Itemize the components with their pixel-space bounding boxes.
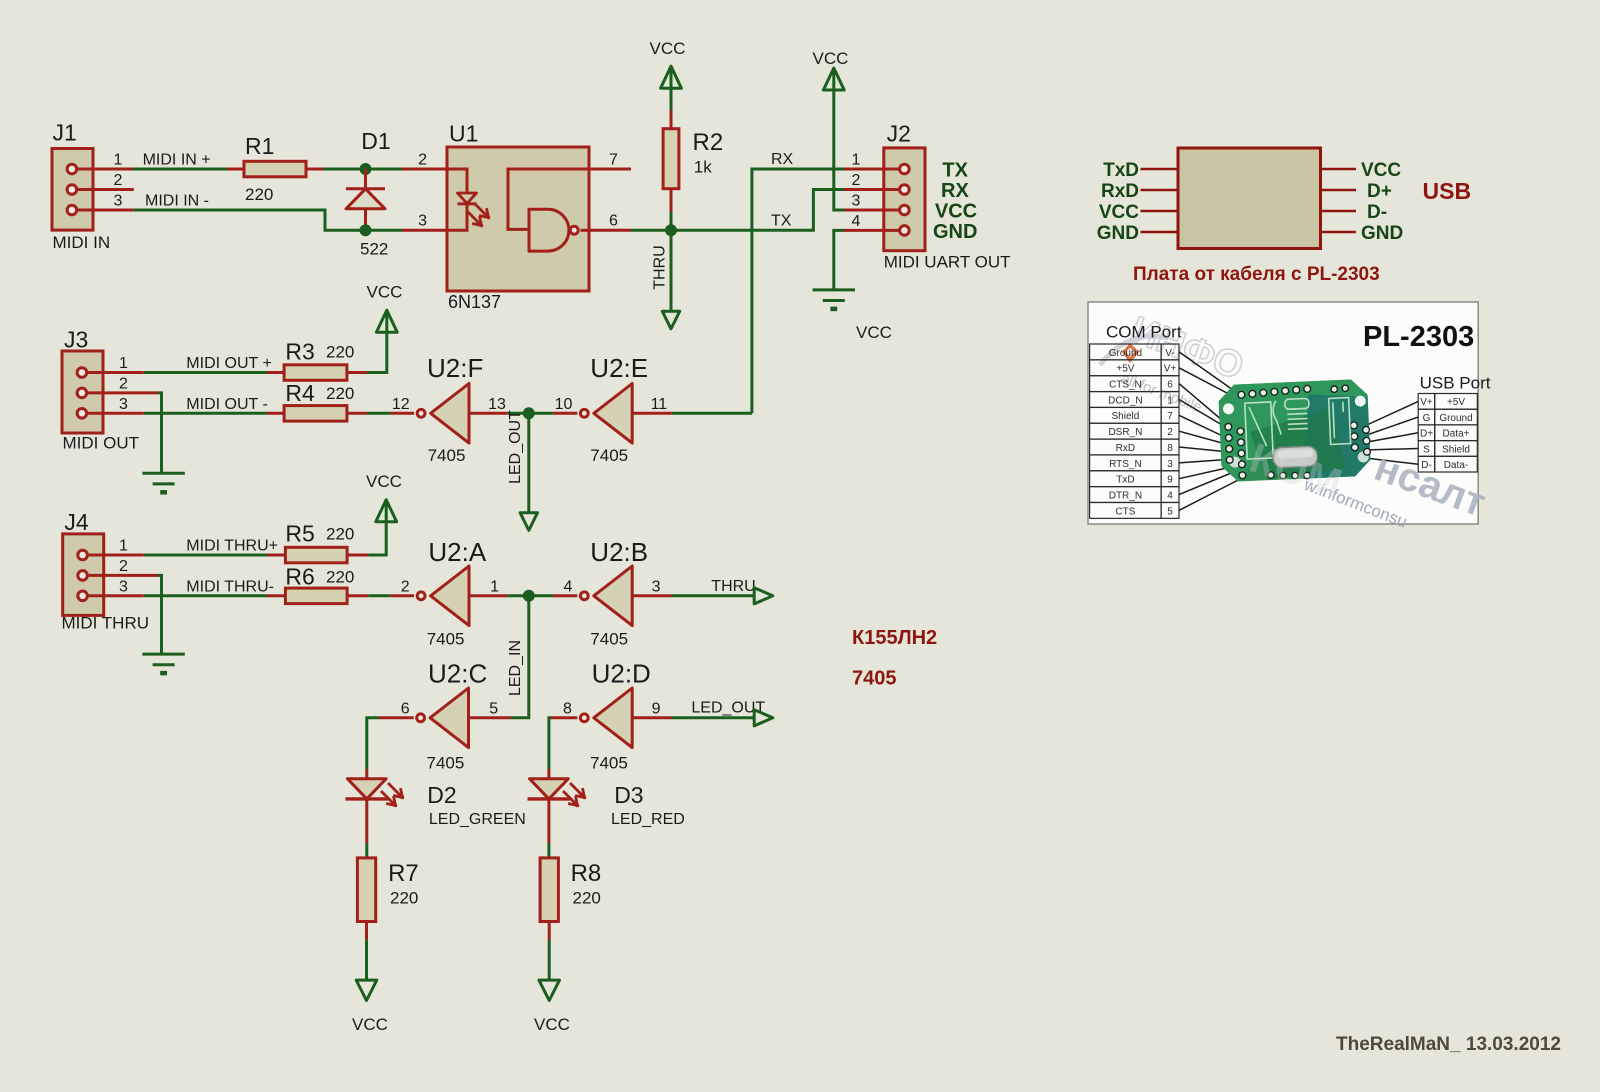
wire MIDI IN + (J1.1 to R1) (133, 152, 227, 170)
LED D3 LED_RED (528, 769, 685, 843)
svg-text:6: 6 (609, 213, 618, 230)
wire R5 to VCC corner (368, 521, 386, 555)
svg-text:MIDI THRU+: MIDI THRU+ (186, 538, 278, 555)
wire J2.4 to ground (834, 230, 844, 290)
J3 pin 3 lead (88, 396, 144, 414)
svg-text:V+: V+ (1420, 397, 1433, 408)
svg-text:7405: 7405 (590, 446, 628, 465)
chip pin RxD (1101, 181, 1178, 202)
svg-text:MIDI IN -: MIDI IN - (145, 193, 209, 210)
COM port pin table (1090, 344, 1162, 360)
svg-text:D2: D2 (427, 782, 456, 808)
U1 pin 7 lead (589, 152, 631, 170)
fan lines PCB to USB table (1356, 401, 1418, 430)
wire MIDI THRU+ (J4.1 to R5) (144, 538, 278, 556)
chip pin TxD (1103, 160, 1178, 181)
svg-text:7: 7 (1167, 411, 1173, 422)
svg-text:7405: 7405 (590, 630, 628, 649)
svg-text:MIDI UART OUT: MIDI UART OUT (884, 253, 1011, 272)
wire U2:E out to RX riser (672, 412, 752, 415)
power VCC terminal above J2 (813, 49, 849, 90)
USB port pin table (1418, 394, 1435, 410)
svg-text:GND: GND (933, 221, 977, 243)
svg-text:9: 9 (1167, 475, 1173, 486)
svg-text:LED_OUT: LED_OUT (507, 410, 524, 484)
svg-text:RxD: RxD (1116, 443, 1135, 454)
svg-text:RTS_N: RTS_N (1109, 459, 1142, 470)
svg-text:2: 2 (418, 152, 427, 169)
svg-text:U2:D: U2:D (592, 659, 651, 689)
svg-text:R5: R5 (285, 521, 314, 547)
svg-text:3: 3 (119, 396, 128, 413)
svg-text:D1: D1 (361, 128, 390, 154)
svg-text:VCC: VCC (813, 49, 849, 68)
J4 pin 2 lead (89, 558, 158, 576)
J1 pin 2 lead (78, 172, 134, 190)
inverter U2:F 7405 (390, 353, 507, 465)
svg-text:2: 2 (1167, 427, 1173, 438)
svg-text:D+: D+ (1420, 429, 1433, 440)
svg-text:8: 8 (563, 700, 572, 717)
inverter U2:C 7405 (379, 659, 511, 773)
svg-text:CTS_N: CTS_N (1109, 380, 1142, 391)
svg-text:1: 1 (852, 152, 861, 169)
svg-text:12: 12 (392, 396, 410, 413)
svg-text:Shield: Shield (1111, 411, 1139, 422)
wire J4.2 to ground (158, 575, 162, 654)
power VCC terminal above R2 (650, 39, 686, 110)
svg-text:10: 10 (555, 396, 573, 413)
svg-text:R3: R3 (285, 339, 314, 365)
svg-text:U2:E: U2:E (590, 353, 648, 383)
node junction D1 anode (360, 163, 372, 175)
svg-text:2: 2 (114, 172, 123, 189)
svg-text:6: 6 (1167, 380, 1173, 391)
svg-text:7405: 7405 (427, 754, 465, 773)
svg-text:TX: TX (942, 159, 968, 181)
svg-text:RX: RX (941, 180, 969, 202)
svg-text:DCD_N: DCD_N (1108, 395, 1142, 406)
svg-text:1: 1 (119, 538, 128, 555)
terminal THRU (down arrow) (652, 230, 680, 328)
svg-text:+5V: +5V (1116, 364, 1134, 375)
wire RX net J2.1 to U2:E output (752, 151, 844, 413)
svg-text:GND: GND (1097, 223, 1139, 244)
svg-text:3: 3 (652, 578, 661, 595)
chip pin GND right (1321, 223, 1404, 244)
power VCC terminal below R7 (down arrow) (352, 980, 388, 1034)
svg-text:1k: 1k (694, 158, 712, 177)
svg-text:7405: 7405 (852, 668, 897, 690)
watermark swoosh (1100, 336, 1168, 365)
wire LED_IN riser (node to U2:C input) (507, 596, 529, 718)
wire MIDI OUT - (J3.3 to R4) (144, 396, 268, 414)
wire R8 to VCC terminal (548, 940, 551, 980)
chip pin VCC right (1321, 160, 1402, 181)
svg-text:220: 220 (245, 185, 273, 204)
svg-text:J4: J4 (64, 509, 89, 535)
svg-text:К155ЛН2: К155ЛН2 (852, 627, 937, 649)
svg-text:220: 220 (326, 568, 354, 587)
wire U2:F out to node (508, 412, 529, 415)
svg-text:LED_IN: LED_IN (507, 640, 524, 696)
svg-text:220: 220 (390, 889, 418, 908)
optocoupler U1 6N137 (447, 120, 589, 312)
ground symbol J2 (813, 290, 892, 342)
svg-text:TheRealMaN_ 13.03.2012: TheRealMaN_ 13.03.2012 (1336, 1034, 1561, 1055)
svg-text:220: 220 (326, 384, 354, 403)
svg-text:U2:B: U2:B (590, 537, 648, 567)
chip pin D- (1321, 202, 1388, 223)
resistor R8 220 (540, 858, 601, 940)
svg-text:6: 6 (401, 700, 410, 717)
svg-text:7: 7 (609, 152, 618, 169)
connector J3 MIDI OUT (62, 327, 139, 453)
svg-text:+5V: +5V (1447, 397, 1465, 408)
power VCC terminal below R8 (down arrow) (534, 980, 570, 1034)
svg-text:RxD: RxD (1101, 181, 1139, 202)
svg-text:CTS: CTS (1115, 506, 1135, 517)
wire J3.2 to ground (158, 393, 162, 473)
wire R1 to node D1 top (323, 168, 402, 171)
svg-text:3: 3 (1167, 459, 1173, 470)
svg-text:R7: R7 (388, 860, 419, 887)
svg-text:MIDI OUT -: MIDI OUT - (186, 396, 267, 413)
node junction D1 bottom (360, 224, 372, 236)
terminal THRU (right arrow) (754, 588, 773, 604)
fan lines COM table to PCB (1179, 352, 1243, 397)
svg-text:3: 3 (418, 213, 427, 230)
J4 pin 3 lead (89, 578, 144, 596)
wire D3 to R8 (547, 843, 550, 858)
J3 pin 1 lead (88, 355, 144, 373)
node junction LED_OUT (523, 407, 535, 419)
connector J2 MIDI UART OUT (884, 121, 1011, 272)
inverter U2:B 7405 (553, 537, 671, 649)
wire R2 bottom to node (670, 212, 673, 230)
resistor R4 220 (267, 380, 367, 421)
crystal (1273, 446, 1318, 468)
resistor R1 220 (227, 133, 323, 204)
svg-text:J1: J1 (53, 120, 77, 146)
svg-text:MIDI THRU-: MIDI THRU- (186, 578, 274, 595)
svg-text:Плата от кабеля с PL-2303: Плата от кабеля с PL-2303 (1133, 264, 1380, 285)
svg-text:5: 5 (489, 700, 498, 717)
svg-text:Shield: Shield (1442, 444, 1470, 455)
wire MIDI OUT + (J3.1 to R3) (144, 355, 272, 373)
svg-text:R6: R6 (285, 564, 314, 590)
J1 pin 1 lead (78, 152, 133, 170)
svg-text:USB: USB (1423, 178, 1472, 204)
wire R4 to U2:F (367, 412, 390, 415)
chip pin GND left (1097, 223, 1178, 244)
svg-text:220: 220 (573, 889, 601, 908)
svg-text:R1: R1 (245, 133, 274, 159)
svg-text:2: 2 (119, 375, 128, 392)
node junction LED_IN (523, 590, 535, 602)
svg-text:6N137: 6N137 (448, 292, 501, 312)
svg-text:7405: 7405 (428, 446, 466, 465)
svg-text:VCC: VCC (935, 200, 977, 222)
svg-text:7405: 7405 (427, 630, 465, 649)
svg-text:RX: RX (771, 151, 794, 168)
terminal LED_OUT (down arrow) (507, 410, 538, 531)
svg-text:13: 13 (488, 396, 506, 413)
svg-text:1: 1 (490, 578, 499, 595)
svg-text:4: 4 (1167, 490, 1173, 501)
svg-text:V-: V- (1165, 348, 1174, 359)
ground symbol J3 (142, 473, 184, 492)
svg-text:U2:C: U2:C (428, 659, 487, 689)
U1 pin 2 lead (402, 152, 447, 170)
svg-text:R4: R4 (285, 380, 315, 406)
terminal LED_OUT (right arrow) (754, 710, 773, 726)
LED D2 LED_GREEN (345, 769, 525, 843)
J2 pin 1 lead (844, 152, 899, 170)
svg-text:2: 2 (852, 172, 861, 189)
svg-text:LED_RED: LED_RED (611, 811, 685, 828)
svg-text:VCC: VCC (352, 1015, 388, 1034)
wire D2 to R7 (365, 843, 368, 858)
wire U2:A out to node (508, 594, 529, 597)
svg-text:PL-2303: PL-2303 (1363, 321, 1474, 353)
svg-text:4: 4 (852, 213, 861, 230)
chip pin VCC left (1099, 202, 1178, 223)
U1 pin 3 lead (402, 213, 447, 231)
svg-text:J3: J3 (64, 327, 88, 353)
svg-text:MIDI OUT: MIDI OUT (63, 434, 140, 453)
ground symbol J4 (142, 654, 184, 673)
svg-text:GND: GND (1361, 223, 1403, 244)
J2 pin 3 lead (844, 193, 899, 211)
svg-text:220: 220 (326, 343, 354, 362)
svg-text:DSR_N: DSR_N (1108, 427, 1142, 438)
svg-text:1: 1 (119, 355, 128, 372)
resistor R7 220 (357, 858, 418, 940)
wire MIDI IN - (J1.3 to D1/U1) (134, 193, 402, 231)
svg-text:LED_GREEN: LED_GREEN (429, 811, 526, 828)
PL-2303 cable board symbol (chip) (1178, 148, 1321, 249)
svg-text:VCC: VCC (1099, 202, 1139, 223)
svg-text:V+: V+ (1164, 364, 1177, 375)
wire U2:D out to LED_OUT terminal (672, 700, 766, 718)
svg-text:Data+: Data+ (1443, 429, 1470, 440)
wire MIDI THRU- (J4.3 to R6) (144, 578, 274, 596)
svg-text:1: 1 (1167, 395, 1173, 406)
svg-text:VCC: VCC (367, 283, 403, 302)
svg-text:S: S (1423, 444, 1430, 455)
svg-text:2: 2 (401, 578, 410, 595)
J3 pin 2 lead (88, 375, 158, 393)
svg-text:THRU: THRU (711, 578, 755, 595)
svg-text:3: 3 (119, 578, 128, 595)
J1 pin 3 lead (78, 193, 134, 211)
J4 pin 1 lead (89, 538, 144, 556)
svg-text:MIDI OUT +: MIDI OUT + (186, 355, 271, 372)
svg-text:VCC: VCC (1361, 160, 1401, 181)
wire R3 to VCC corner (367, 332, 386, 373)
wire node to U2:E (529, 412, 553, 415)
diode D1 522 (346, 128, 391, 259)
wire node to U2:B (529, 594, 553, 597)
svg-text:220: 220 (326, 525, 354, 544)
svg-text:VCC: VCC (534, 1015, 570, 1034)
svg-text:MIDI THRU: MIDI THRU (62, 614, 150, 633)
svg-text:TxD: TxD (1103, 160, 1139, 181)
svg-text:U2:F: U2:F (427, 353, 483, 383)
svg-text:R2: R2 (693, 129, 724, 156)
svg-text:VCC: VCC (366, 472, 402, 491)
svg-text:Ground: Ground (1439, 413, 1472, 424)
svg-text:D-: D- (1367, 202, 1387, 223)
wire R7 to VCC terminal (365, 940, 368, 980)
wire U1.6 to node TX (631, 229, 671, 232)
chip pin D+ (1321, 181, 1392, 202)
connector J4 MIDI THRU (62, 509, 150, 633)
svg-text:7405: 7405 (590, 754, 628, 773)
inverter U2:D 7405 (551, 659, 672, 773)
svg-text:8: 8 (1167, 443, 1173, 454)
svg-text:D+: D+ (1367, 181, 1392, 202)
wire U2:B out to THRU terminal (672, 578, 756, 596)
J2 pin 2 lead (844, 172, 899, 190)
watermark logo (1122, 343, 1139, 363)
resistor R6 220 (267, 564, 368, 604)
PCB photo (1218, 379, 1371, 483)
svg-text:U2:A: U2:A (428, 537, 486, 567)
resistor R3 220 (267, 339, 367, 381)
wire R6 to U2:A (368, 594, 390, 597)
svg-text:3: 3 (114, 193, 123, 210)
svg-text:11: 11 (651, 396, 668, 413)
svg-text:DTR_N: DTR_N (1109, 490, 1142, 501)
power VCC terminal above R5 (366, 472, 402, 522)
resistor R5 220 (267, 521, 368, 563)
svg-text:4: 4 (563, 578, 572, 595)
svg-text:2: 2 (119, 558, 128, 575)
svg-text:VCC: VCC (650, 39, 686, 58)
svg-text:J2: J2 (887, 121, 911, 147)
svg-text:MIDI IN: MIDI IN (53, 233, 111, 252)
inverter U2:A 7405 (390, 537, 507, 649)
node junction TX (665, 224, 677, 236)
svg-text:D3: D3 (614, 782, 643, 808)
svg-text:THRU: THRU (652, 245, 669, 289)
wire U2:C out down to D2 (367, 718, 379, 769)
svg-text:Ground: Ground (1109, 348, 1142, 359)
inverter U2:E 7405 (553, 353, 672, 465)
svg-text:COM Port: COM Port (1106, 323, 1182, 342)
svg-text:TX: TX (771, 212, 792, 229)
resistor R2 1k (663, 110, 723, 212)
svg-text:1: 1 (114, 152, 123, 169)
svg-text:VCC: VCC (856, 323, 892, 342)
svg-text:3: 3 (852, 193, 861, 210)
wire TX net to J2.2 (671, 190, 844, 231)
svg-text:5: 5 (1167, 506, 1173, 517)
svg-text:USB Port: USB Port (1420, 374, 1491, 393)
svg-text:MIDI IN +: MIDI IN + (143, 152, 211, 169)
connector J1 MIDI IN (52, 120, 110, 253)
J2 pin 4 lead (844, 213, 899, 231)
svg-text:R8: R8 (571, 860, 602, 887)
svg-text:522: 522 (360, 240, 388, 259)
svg-text:9: 9 (652, 700, 661, 717)
svg-text:TxD: TxD (1116, 475, 1134, 486)
power VCC terminal above R3 (367, 283, 403, 333)
U1 pin 6 lead (589, 213, 631, 231)
wire VCC to J2.3 (834, 90, 844, 210)
svg-text:G: G (1423, 413, 1431, 424)
wire U2:D in down to D3 (549, 718, 551, 769)
PL-2303 photo panel (1088, 302, 1491, 532)
svg-text:U1: U1 (449, 120, 478, 146)
